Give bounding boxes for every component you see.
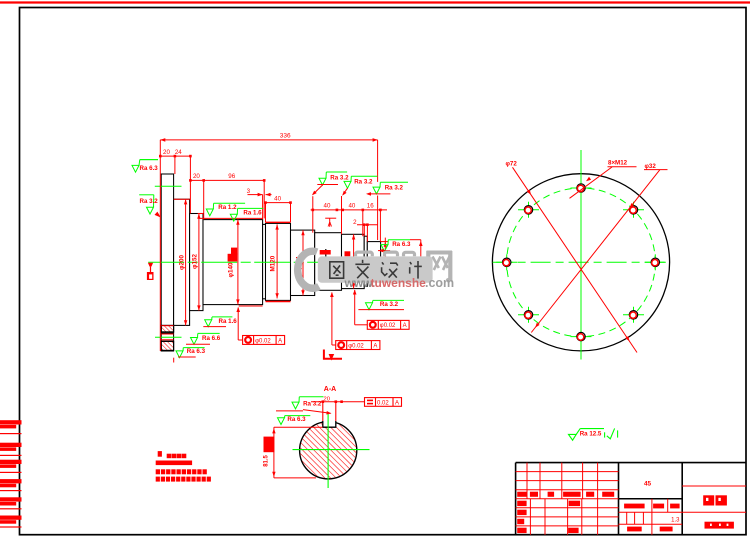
drawing number blob [705,522,734,529]
svg-text:A: A [327,221,332,228]
bolt hole M12 #7 [645,261,666,263]
title block middle grid [619,499,683,535]
leader S5a [313,185,323,194]
shaft step 5 [291,230,315,295]
svg-text:Ra 6.3: Ra 6.3 [140,165,159,172]
svg-text:16: 16 [367,203,374,210]
tolerance frame 2 [331,293,333,346]
watermark big glyph wang [427,251,453,282]
diameter dim φ200 [185,199,187,325]
flange section hatch band lower [161,341,173,350]
svg-text:Ra 3.2: Ra 3.2 [354,179,373,186]
shaft step Φ152 [190,214,203,311]
surface roughness symbol Ra 3.2 [139,195,154,214]
svg-text:tuwenshe: tuwenshe [371,276,427,290]
shaft step 7 [342,234,365,288]
diagonal leader phi32 [531,170,660,333]
surface roughness symbol Ra 1.2 [206,203,245,216]
diameter dim step7 [353,234,355,288]
svg-text:96: 96 [228,173,235,180]
watermark band [318,256,433,282]
surface roughness symbol Ra 1.6 [205,317,233,327]
svg-text:φ72: φ72 [506,161,518,168]
watermark big glyph tops peeking above band [356,252,415,256]
svg-text:24: 24 [175,149,182,156]
diameter dim end journal [384,238,386,286]
red top edge line [0,1,750,3]
svg-text:Ra 3.2: Ra 3.2 [303,400,322,407]
svg-text:φ32: φ32 [645,163,657,170]
surface roughness symbol Ra 6.3 [132,160,158,173]
svg-text:A-A: A-A [324,386,336,393]
svg-text:Ra 6.3: Ra 6.3 [287,416,306,423]
leader S7 down [410,239,421,241]
svg-text:20: 20 [193,173,200,180]
bolt hole M12 #6 [623,314,644,316]
svg-text:40: 40 [324,203,331,210]
diameter dim step5 φ114 [302,230,304,295]
surface roughness symbol Ra 3.2 [373,182,408,194]
red edge overlays on shaft [174,198,190,200]
dimension 336 overall length [160,139,377,141]
svg-text:φ200: φ200 [179,254,186,270]
bolt hole M12 #1 [571,187,592,189]
dimensions 40 / 40 / 16 [311,209,387,211]
svg-text:.com: .com [425,276,454,290]
watermark logo swoosh [298,251,319,288]
dimensions 20 / 24 [160,155,190,157]
svg-text:Ra 6.3: Ra 6.3 [392,241,411,248]
surface roughness symbol Ra 6.3 [176,348,205,358]
title block right cells [682,485,746,487]
surface roughness symbol Ra 3.2 [292,397,324,409]
flange bolt hole (section) [161,332,173,334]
svg-text:2: 2 [353,219,357,226]
surface roughness symbol Ra 3.2 [366,300,405,309]
svg-text:8×M12: 8×M12 [608,160,628,167]
bolt hole M12 #5 [571,336,592,338]
svg-text:Ra 3.2: Ra 3.2 [385,185,404,192]
svg-text:20: 20 [163,149,170,156]
dimension 40 (thread length) [266,202,291,204]
svg-text:A: A [403,323,407,329]
part name blob [703,495,714,505]
keyway dim blob on cylinder [231,248,237,255]
datum flag A above step 6 [325,217,336,219]
svg-text:1.3: 1.3 [671,517,680,523]
shaft thread relief groove [263,224,266,298]
diameter dim φ152 [198,214,200,311]
svg-text:φ152: φ152 [192,253,199,269]
svg-text:20: 20 [323,397,329,403]
tolerance frame 1 (runout 0.02 A) [237,308,239,341]
svg-text:0.02: 0.02 [377,400,389,406]
shaft cylinder Φ140 [203,220,263,305]
svg-text:Ra 12.5: Ra 12.5 [580,431,602,438]
svg-text:φ0.02: φ0.02 [380,323,396,329]
shaft step 6 [315,233,342,291]
bolt hole centerline top [155,185,182,187]
shaft end relief groove [364,236,367,286]
svg-text:A: A [373,343,377,349]
surface roughness symbol Ra 6.3 [381,240,410,252]
bolt hole M12 #4 [518,314,539,316]
title block left grid [516,463,619,535]
svg-text:40: 40 [348,203,355,210]
dimensions 20 / 96 [190,179,264,181]
svg-text:Ra 1.2: Ra 1.2 [218,204,237,211]
surface roughness symbol Ra 3.2 [344,176,378,188]
keyway slot [323,413,336,427]
bolt circle (green dashed) [507,188,656,337]
bolt hole M12 #8 [623,209,644,211]
flange vertical centerline [580,150,582,360]
svg-text:Ra 6.3: Ra 6.3 [187,348,206,355]
symmetry tolerance frame [365,398,402,407]
detail centerlines [293,449,370,451]
shaft thread M120 [266,223,291,300]
svg-text:A: A [395,400,399,406]
bolt hole centerline bottom [155,336,182,338]
svg-text:45: 45 [644,480,652,487]
svg-text:Ra 3.2: Ra 3.2 [330,175,349,182]
red leader arrow [155,212,161,218]
shaft step Φ200 [174,199,190,325]
dimension 2 (end groove) [357,224,378,226]
flange horizontal centerline [493,261,670,263]
svg-text:40: 40 [274,195,281,202]
leader S5c [370,193,390,195]
svg-text:Ra 6.6: Ra 6.6 [202,335,221,342]
technical notes block [158,451,162,457]
bolt hole M12 #3 [496,261,517,263]
svg-text:φ0.02: φ0.02 [348,343,364,349]
diagonal leader phi72 [513,167,638,352]
svg-text:M120: M120 [270,255,277,271]
surface roughness symbol Ra 6.3 [278,416,311,425]
dimension 3 (relief groove) [248,194,263,196]
diameter dim φ140 [237,220,239,305]
svg-text:3: 3 [247,188,251,195]
title block left grid text blobs [517,492,526,497]
surface roughness symbol Ra 1.6 [230,208,263,221]
svg-text:Ra 3.2: Ra 3.2 [140,198,159,205]
bolt hole M12 #2 [518,209,539,211]
section arrow mark A [324,350,342,359]
shaft centerline [148,261,378,263]
svg-text:Ra 3.2: Ra 3.2 [380,301,399,308]
datum flag A on shaft axis [148,263,153,267]
svg-text:Ra 1.6: Ra 1.6 [243,210,262,217]
thread crest lines M120 [266,221,291,223]
surface roughness symbol Ra 6.6 [191,333,220,344]
svg-text:A: A [278,338,282,344]
svg-text:φ0.02: φ0.02 [255,338,271,344]
svg-text:81.5: 81.5 [263,454,269,466]
general roughness Ra 12.5 [569,428,618,440]
keyway mark on step 6 [325,249,327,257]
flange outer circle [492,174,669,351]
svg-text:Ra 1.6: Ra 1.6 [219,318,238,325]
tolerance frame 3 [354,290,356,325]
left edge revision table rows (red) [0,420,22,424]
watermark band characters tu wen she ji [330,260,422,279]
shaft flange Φ236 [161,174,173,351]
leader under Ra6.3 [140,159,158,161]
shaft end journal [367,242,380,282]
leader S5b [343,188,348,194]
dim 20 keyway width [311,401,342,403]
thread dim M120 [276,224,278,298]
svg-text:336: 336 [280,133,291,140]
svg-text:φ140: φ140 [227,262,234,278]
leader to symmetry tolerance [342,401,365,403]
title block outer lines [516,463,746,535]
surface roughness symbol Ra 3.2 [319,172,347,185]
dim 81.5 depth [273,427,275,478]
